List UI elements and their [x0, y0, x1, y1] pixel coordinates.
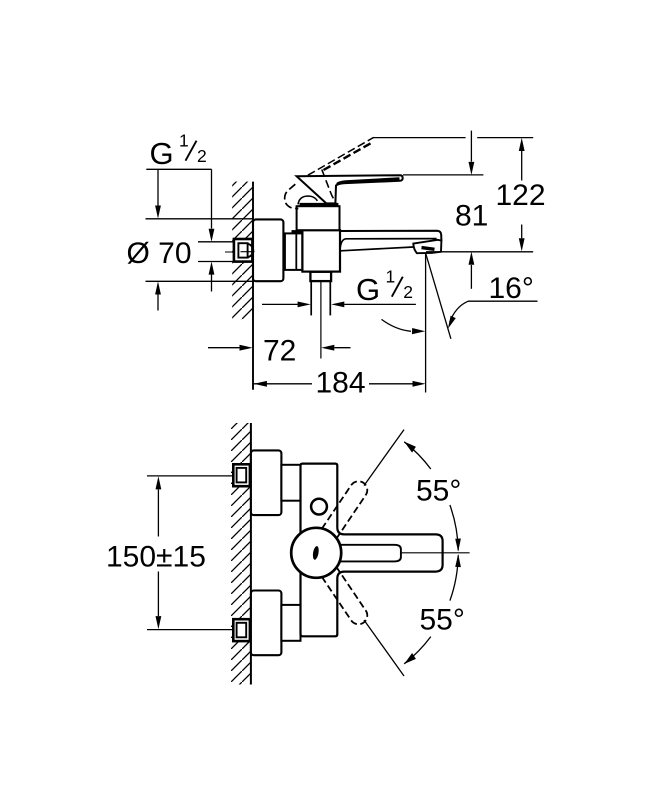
- dimension arc 55 upper: [404, 442, 461, 552]
- 55 degree reference line upper: [364, 430, 404, 486]
- wall union inner: [238, 243, 254, 257]
- wire: [225, 251, 340, 253]
- spout underside: [341, 247, 414, 251]
- svg-text:2: 2: [197, 146, 207, 166]
- 55 degree reference line lower: [364, 620, 404, 676]
- wall union square: [234, 239, 253, 262]
- svg-text:55°: 55°: [420, 604, 465, 637]
- wall surface line (front view): [250, 423, 252, 685]
- wall hatch (front view): [231, 423, 251, 685]
- shower outlet collar: [310, 272, 331, 281]
- dimension Ø70: [127, 169, 253, 310]
- dimension lines G1/2 left: [198, 169, 234, 291]
- svg-text:81: 81: [455, 200, 488, 233]
- adapter (side view): [285, 233, 303, 270]
- svg-text:16°: 16°: [489, 272, 534, 305]
- lever inner contour: [339, 545, 401, 562]
- svg-text:2: 2: [403, 282, 413, 302]
- dimension arc 55 lower: [404, 554, 465, 664]
- cartridge dome: [298, 196, 317, 204]
- dimension 122: [373, 138, 546, 252]
- dimension G1/2 lower label: [262, 267, 416, 308]
- escutcheon (side view): [253, 219, 283, 281]
- shower pipe: [311, 281, 330, 315]
- svg-text:Ø 70: Ø 70: [127, 237, 192, 270]
- lower escutcheon (front view): [251, 591, 282, 656]
- lower adapter (front view): [281, 605, 300, 641]
- dimension 81: [403, 131, 488, 289]
- body (side view): [302, 230, 340, 271]
- svg-text:72: 72: [263, 335, 296, 368]
- svg-text:G: G: [356, 272, 380, 307]
- diverter button: [311, 499, 327, 515]
- pipe centerline: [320, 281, 322, 358]
- upper union square (front view): [233, 464, 250, 486]
- cartridge housing: [297, 206, 340, 230]
- body step: [292, 230, 304, 233]
- svg-text:150±15: 150±15: [106, 541, 206, 574]
- body and lever outline (front view): [301, 464, 443, 637]
- svg-text:122: 122: [496, 179, 546, 212]
- dimension G1/2 top label: [146, 130, 211, 171]
- spout top: [340, 231, 441, 241]
- wall surface line (side view): [252, 182, 254, 390]
- collar bold line: [300, 203, 339, 206]
- svg-text:55°: 55°: [416, 475, 461, 508]
- spout reference line: [426, 251, 533, 253]
- svg-text:1: 1: [386, 267, 396, 287]
- spout inner line: [340, 239, 437, 251]
- set screw mark: [312, 546, 320, 561]
- dashed lever upper position: [322, 481, 367, 538]
- raised lever dashed: [285, 137, 374, 208]
- lower union square (front view): [233, 619, 250, 641]
- upper escutcheon (front view): [251, 450, 282, 515]
- aerator lip: [413, 240, 441, 253]
- lever (side view): [297, 175, 403, 203]
- dimension 150±15: [106, 476, 233, 630]
- upper adapter (front view): [281, 465, 300, 501]
- svg-text:184: 184: [316, 366, 366, 399]
- dashed lever lower position: [322, 567, 367, 624]
- svg-text:G: G: [150, 136, 174, 171]
- wall hatch (side view): [232, 182, 253, 320]
- dimension 72: [208, 335, 351, 368]
- lever centerline: [401, 552, 470, 554]
- svg-text:1: 1: [179, 130, 189, 150]
- dimension 184: [254, 366, 426, 399]
- cartridge boss circle: [291, 528, 341, 578]
- dimension 16 degrees: [382, 253, 538, 393]
